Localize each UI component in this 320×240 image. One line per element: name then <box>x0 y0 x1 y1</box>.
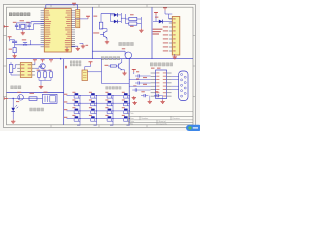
value label R7 <box>49 70 52 71</box>
value label row label R2 <box>64 101 67 102</box>
value label Y1 11.0592MHz <box>20 20 25 21</box>
pushbutton S3 <box>108 93 112 95</box>
LED D4 indicator <box>12 99 14 108</box>
text label 继电器控制模块 label <box>30 108 44 111</box>
potentiometer RV1 <box>9 65 13 73</box>
value label C6 label <box>133 85 136 86</box>
U2 pin texts <box>21 64 31 75</box>
ground GND U4a <box>132 96 136 100</box>
value label label R2 <box>93 16 97 17</box>
net label keypad column 4 <box>126 125 129 126</box>
IC U4 MAX232 body <box>156 70 167 99</box>
svg-text:Drawn By: Drawn By <box>159 122 167 125</box>
pushbutton S11 <box>108 109 112 111</box>
wire R2 top <box>100 14 102 23</box>
value label label P3.7 <box>105 65 109 66</box>
RP1 resistor elements <box>76 11 79 26</box>
wire keypad column 1 <box>79 96 81 124</box>
capacitor C3 reset <box>12 40 17 42</box>
text label 电平转换串口模块 label <box>150 63 173 67</box>
wire XTAL vertical <box>30 22 32 25</box>
wire keypad column 2 <box>96 96 98 124</box>
resistor R4 horizontal <box>129 22 137 25</box>
ground GND below RP1 <box>76 47 80 51</box>
value label C4 label <box>136 71 139 72</box>
power symbol VCC R7 <box>49 60 53 63</box>
value label C5 label <box>136 78 139 79</box>
wire Q4 emitter <box>122 69 125 71</box>
IC U1 STC89C52 body <box>44 9 71 52</box>
capacitor C7 bottom <box>143 94 145 97</box>
pushbutton S10 <box>91 109 95 111</box>
net label keypad column 2 <box>94 125 97 126</box>
value label C2 30pF <box>26 22 30 23</box>
viewer button overlay <box>186 125 202 131</box>
ground GND Q4 <box>122 71 126 75</box>
U1 pin name texts <box>45 10 71 47</box>
J1 pins <box>169 19 173 51</box>
wire C8 gnd <box>161 95 162 97</box>
resistor R6 <box>44 72 47 78</box>
wire U1 GND pin <box>71 45 78 47</box>
pushbutton S5 <box>75 101 79 103</box>
wire R3 R4 left <box>126 18 129 20</box>
net label keypad column 3 <box>110 125 113 126</box>
value label TXD label <box>143 84 147 85</box>
relay K1 body <box>43 94 58 103</box>
power symbol VCC buzzer <box>89 62 93 65</box>
text label 直流电机控制模块 label <box>119 42 134 46</box>
ground GND C7 <box>148 100 152 104</box>
junction node on divider <box>60 58 62 60</box>
diode D3 power <box>159 20 163 24</box>
wire R1 to ground <box>14 53 16 55</box>
wire keypad row 3 <box>67 110 130 112</box>
ground GND serial third <box>132 101 136 105</box>
value label label D3 <box>155 17 158 18</box>
value label D4 label <box>16 101 19 102</box>
text label 蜂鸣器报警模块 label <box>101 56 120 60</box>
wire to ground mod3 <box>40 80 42 85</box>
value label C7 label <box>141 91 144 92</box>
wire U1 pin31 to VCC rail <box>45 5 47 9</box>
U4 right pins <box>167 73 172 96</box>
ground GND reset <box>12 54 16 58</box>
motor M1 <box>125 52 132 59</box>
power symbol VCC U2 <box>33 60 37 63</box>
U2 left pins <box>17 65 20 75</box>
wire U2 vcc <box>34 62 36 64</box>
value label RXD label <box>143 77 147 78</box>
value label net motor <box>122 48 125 49</box>
crystal Y1 <box>21 24 25 28</box>
capacitor C1 <box>15 24 18 26</box>
pushbutton S2 <box>91 93 95 95</box>
value label R5 <box>37 70 40 71</box>
ground GND LED <box>11 120 15 124</box>
wire keypad row 1 <box>67 95 130 97</box>
wire keypad column 4 <box>128 96 130 124</box>
ground GND U1 pin20 <box>65 48 69 52</box>
wire RP1 common to VCC rail <box>77 5 79 10</box>
power symbol net arrow left <box>4 25 8 27</box>
value label R1 10k <box>9 49 12 50</box>
ground GND Q1 <box>105 40 109 44</box>
wire relay rail <box>8 98 42 100</box>
value label row label R4 <box>64 117 67 118</box>
title block <box>129 112 193 125</box>
U1 left pins <box>41 11 45 47</box>
IC U2 LM393 body <box>20 63 32 78</box>
wire keypad column 3 <box>112 96 114 124</box>
power symbol VCC power in <box>154 12 158 15</box>
buzzer LS1 body <box>82 70 88 81</box>
wire reset vertical <box>9 39 11 41</box>
keypad junction dots <box>79 95 130 119</box>
wire sensor resistors bottom <box>38 77 40 80</box>
U1 right pins <box>71 11 75 47</box>
section divider wire vertical x=63.7 <box>63 59 65 125</box>
power symbol small arrow <box>65 66 67 69</box>
ground GND crystal <box>21 31 25 35</box>
power symbol VCC top <box>72 3 76 6</box>
wire crystal top rail <box>17 22 31 24</box>
wire U2 out to Q2 <box>35 67 39 69</box>
resistor R7 <box>50 72 53 78</box>
wire buzzer to rail <box>88 71 102 73</box>
text label 单片机最小系统 title <box>9 13 30 16</box>
value label net ALE <box>86 45 89 46</box>
power symbol +5V flag <box>163 8 167 11</box>
wire buzzer vcc <box>90 64 92 66</box>
wire VCC rail above U1 <box>46 4 78 6</box>
wire keypad row 2 <box>67 102 130 104</box>
wire crystal bottom rail <box>17 29 34 31</box>
wire diode anodes <box>111 14 114 16</box>
power net arrow relay <box>5 97 9 99</box>
ground GND EA <box>81 44 85 48</box>
U4 left pins <box>151 73 156 96</box>
pushbutton S7 <box>108 101 112 103</box>
svg-text:Size: Size <box>130 118 134 120</box>
value label C8 label <box>155 91 158 92</box>
wire keypad row 4 <box>67 118 130 120</box>
wire XTAL2 to U1 <box>34 23 45 25</box>
wire J1 ground <box>174 54 176 55</box>
pushbutton S16 <box>124 116 128 118</box>
pushbutton S14 <box>91 116 95 118</box>
resistor R2 vertical <box>99 22 103 29</box>
wire Q1 emitter to ground <box>106 38 108 40</box>
pushbutton S4 <box>124 93 128 95</box>
wire LED to ground <box>12 111 14 119</box>
pushbutton S8 <box>124 101 128 103</box>
section divider wire horizontal y=92.5 <box>7 92 64 94</box>
text label 数码管显示模块 label <box>70 61 81 67</box>
value label R9 label <box>30 93 35 94</box>
text label 光敏检测模块 label <box>11 86 22 89</box>
wire P0 bus stub right of U1 <box>75 18 88 20</box>
connector J1 power header body <box>172 17 180 56</box>
transistor Q1 <box>100 31 107 38</box>
wire R2 to Q1 collector <box>100 28 102 30</box>
power symbol VCC MAX232 <box>132 69 136 72</box>
wire 5V to connector <box>165 13 172 15</box>
wire diode cathodes <box>117 14 121 16</box>
power symbol VCC reset <box>8 37 12 40</box>
capacitor C2 <box>27 24 30 26</box>
pushbutton S13 <box>75 116 79 118</box>
J1 net labels <box>163 26 168 51</box>
wire RV1 top <box>10 62 12 64</box>
section divider wire vertical x=129.2 <box>128 59 130 112</box>
value label K1 label <box>44 92 48 93</box>
U2 right pins <box>32 65 35 75</box>
resistor R9 <box>29 97 37 101</box>
diode D1 <box>114 13 117 17</box>
wire serial nets left <box>129 79 150 81</box>
value label C1 30pF <box>13 22 17 23</box>
text label IO控制模块 label <box>106 86 122 89</box>
power symbol VCC Q2 <box>41 60 45 63</box>
wire XTAL1 to U1 <box>31 21 44 23</box>
wire EA hook <box>80 42 84 44</box>
capacitor C8 bottom <box>156 94 158 97</box>
capacitor C5 <box>137 81 139 84</box>
section divider wire horizontal y=58.7 <box>7 58 194 60</box>
wire RST net <box>14 43 16 48</box>
wire U1 pin20 down <box>66 47 68 48</box>
pushbutton S9 <box>75 109 79 111</box>
wire U4 to J2 <box>172 76 179 89</box>
section divider wire vertical x=92 <box>91 7 93 59</box>
ground GND R4 <box>139 29 143 33</box>
ground GND sensor <box>39 85 43 89</box>
value label RST switch <box>22 39 26 40</box>
wire caps to max232 <box>142 75 150 77</box>
wire C7 gnd <box>149 96 151 100</box>
capacitor C6 <box>134 88 136 91</box>
resistor R8 base <box>110 65 116 67</box>
ground GND C8 <box>160 100 164 104</box>
wire rail bottom <box>102 83 130 85</box>
wire reset node <box>14 40 16 41</box>
wire RV1 to U2 <box>15 64 17 66</box>
junction node relay <box>13 98 14 99</box>
resistor R1 reset <box>13 48 16 53</box>
wire Q4 collector <box>121 59 123 63</box>
resistor network RP1 body <box>76 10 80 28</box>
svg-text:Revision: Revision <box>173 118 180 120</box>
pushbutton S1 <box>75 93 79 95</box>
J1 pin numbers <box>173 18 175 51</box>
wire Q4 base left <box>108 65 110 67</box>
pushbutton S15 <box>108 116 112 118</box>
transistor Q2 sensor <box>40 64 45 69</box>
value label Q3 label <box>17 92 21 93</box>
pushbutton RESET switch <box>22 43 29 46</box>
diode D2 <box>114 20 117 24</box>
J2 pin circles <box>181 74 187 98</box>
value label net T1IN <box>151 68 155 69</box>
resistor R3 horizontal <box>129 17 137 20</box>
ground GND J1 <box>173 55 177 59</box>
net label keypad column 1 <box>77 125 80 126</box>
power symbol VCC P0 pull-up <box>86 16 90 19</box>
wire sensor resistors top <box>39 69 51 71</box>
pushbutton S12 <box>124 109 128 111</box>
value label label R3 <box>130 14 134 15</box>
wire power vertical <box>155 15 157 21</box>
value label R6 <box>43 70 46 71</box>
transistor Q4 buzzer <box>118 64 120 69</box>
svg-text:Title: Title <box>130 112 134 115</box>
value label row label R3 <box>64 109 67 110</box>
wire module top rail <box>101 13 114 15</box>
value label label R4 <box>130 26 134 27</box>
svg-text:File: File <box>130 123 133 125</box>
wire R8 right <box>116 65 118 67</box>
wire R3 R4 right <box>137 18 142 20</box>
wire button leg <box>20 44 22 46</box>
resistor R5 <box>38 72 41 78</box>
wire max232 vcc <box>133 72 135 74</box>
wire diode to connector <box>153 21 159 23</box>
wire motor feed y=51.2 <box>92 50 125 52</box>
transistor Q3 relay <box>18 95 24 101</box>
wire crystal to ground <box>22 30 24 32</box>
connector J2 DB9 body <box>179 71 188 101</box>
svg-text:Number: Number <box>142 117 149 120</box>
wire button to VCC <box>28 44 30 46</box>
wire RV1 bottom <box>10 73 12 76</box>
value label net R1IN <box>157 68 161 69</box>
value label label P3.5 <box>93 32 99 33</box>
value label row label R1 <box>64 94 67 95</box>
capacitor C4 <box>137 74 139 77</box>
U4 pin texts <box>156 73 166 97</box>
pushbutton S6 <box>91 101 95 103</box>
section divider wire vertical x=152 <box>151 7 153 59</box>
wire buzzer rail vertical <box>101 59 103 84</box>
wire 5V vertical <box>164 10 166 14</box>
